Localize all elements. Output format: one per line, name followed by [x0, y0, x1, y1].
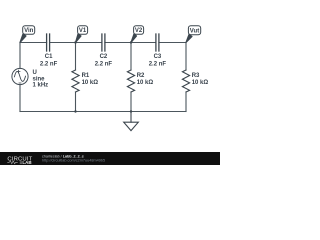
wire R1 to bottom rail	[75, 92, 77, 112]
net flag Vut	[186, 26, 201, 43]
capacitor C1	[40, 34, 58, 67]
junction dot R1 bottom	[74, 110, 76, 112]
capacitor C3	[149, 34, 167, 67]
wire Vin down to source U	[19, 43, 21, 69]
svg-text:1 kHz: 1 kHz	[33, 83, 49, 89]
svg-text:R1: R1	[82, 73, 90, 79]
wire C1 to node V1	[50, 42, 76, 44]
wire top Vin to C1	[20, 42, 47, 44]
node V1 junction dot	[74, 41, 76, 43]
wire node V2 down to R2	[130, 43, 132, 71]
voltage source U (sine)	[12, 68, 48, 88]
svg-text:10 kΩ: 10 kΩ	[137, 80, 154, 86]
svg-text:Vut: Vut	[190, 28, 199, 34]
node V2 junction dot	[130, 41, 132, 43]
net flag V1	[76, 26, 88, 43]
wire node Vut down to R3	[185, 43, 187, 71]
svg-text:2.2 nF: 2.2 nF	[149, 61, 167, 67]
resistor R2	[127, 70, 153, 92]
wire node V2 to C3	[131, 42, 156, 44]
net flag Vin	[20, 26, 35, 43]
resistor R1	[72, 70, 98, 92]
svg-text:http://circuitlab.com/c2m7uu48: http://circuitlab.com/c2m7uu48m49b5	[42, 159, 105, 163]
svg-text:Vin: Vin	[24, 28, 34, 34]
svg-text:≡LAB: ≡LAB	[20, 160, 33, 165]
wire R3 to bottom rail	[185, 92, 187, 112]
svg-text:U: U	[33, 70, 37, 76]
svg-text:2.2 nF: 2.2 nF	[40, 61, 58, 67]
svg-text:2.2 nF: 2.2 nF	[95, 61, 113, 67]
wire C3 to node Vut	[159, 42, 186, 44]
wire node V1 to C2	[76, 42, 102, 44]
footer bar	[0, 152, 220, 165]
svg-text:V2: V2	[135, 28, 143, 34]
svg-text:V1: V1	[79, 28, 87, 34]
wire bottom rail	[20, 111, 186, 113]
svg-text:C3: C3	[154, 54, 162, 60]
wire node V1 down to R1	[75, 43, 77, 71]
resistor R3	[182, 70, 208, 92]
svg-text:R3: R3	[192, 73, 200, 79]
svg-text:10 kΩ: 10 kΩ	[82, 80, 99, 86]
svg-text:sine: sine	[33, 76, 46, 82]
svg-text:C1: C1	[45, 54, 53, 60]
net flag V2	[131, 26, 144, 43]
wire C2 to node V2	[105, 42, 131, 44]
ground	[124, 112, 139, 131]
svg-text:C2: C2	[100, 54, 108, 60]
svg-text:10 kΩ: 10 kΩ	[192, 80, 209, 86]
CircuitLab logo	[7, 157, 32, 165]
wire source U to bottom rail	[19, 85, 21, 112]
wire R2 to bottom rail	[130, 92, 132, 112]
svg-text:R2: R2	[137, 73, 145, 79]
capacitor C2	[95, 34, 113, 67]
junction dot ground node	[130, 110, 132, 112]
